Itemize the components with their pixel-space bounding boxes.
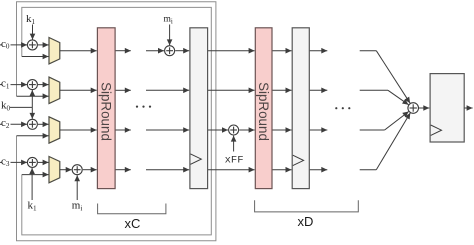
svg-text:SipRound: SipRound bbox=[256, 82, 271, 141]
svg-text:xC: xC bbox=[125, 216, 141, 231]
svg-text:xD: xD bbox=[298, 214, 314, 229]
svg-text:xFF: xFF bbox=[225, 154, 244, 166]
svg-text:SipRound: SipRound bbox=[99, 82, 114, 141]
